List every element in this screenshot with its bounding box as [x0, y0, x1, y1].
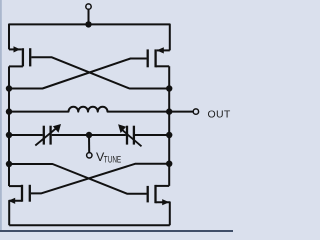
wire: varactor line left — [9, 134, 43, 136]
wire: VSS bottom rail — [9, 224, 170, 226]
junction dot node B / cross-couple — [166, 85, 172, 91]
varactor C1 arrow shaft — [35, 128, 56, 146]
wire: M1 source lead — [9, 48, 22, 50]
transistor M4 gate bar — [147, 186, 149, 203]
terminal OUT — [193, 109, 198, 114]
wire: M2 source lead — [157, 49, 170, 51]
transistor M4 channel bar — [154, 185, 156, 203]
junction dot node A / cross-couple — [6, 85, 12, 91]
wire: node A rail (left) — [8, 66, 10, 186]
wire: M4 source lead — [156, 202, 170, 225]
bottom figure border — [0, 230, 233, 232]
wire: M4 drain lead — [156, 185, 170, 187]
wire: M3 source lead — [9, 201, 22, 225]
wire: cross-couple M1 gate to node B — [31, 57, 169, 88]
wire: varactor line middle — [52, 134, 126, 136]
wire: VDD top rail — [9, 24, 170, 50]
wire: M2 drain lead — [156, 65, 170, 67]
arrow varactor C2 head — [118, 124, 126, 133]
svg-text:OUT: OUT — [208, 108, 231, 120]
wire: M1 drain lead — [9, 65, 23, 67]
junction dot VDD stub — [85, 21, 91, 27]
transistor M2 gate bar — [147, 49, 149, 67]
arrow M1 source (PMOS, points right into device) — [14, 46, 21, 52]
wire: cross-couple M2 gate to node A — [9, 59, 147, 89]
junction dot node B / bottom cross-couple — [166, 161, 172, 167]
wire: supply stub — [88, 9, 90, 24]
junction dot node A / inductor — [6, 108, 12, 114]
arrow varactor C1 head — [53, 124, 61, 133]
varactor C2 plates — [126, 126, 128, 145]
transistor M2 channel bar — [154, 49, 156, 67]
transistor M3 channel bar — [21, 185, 23, 202]
left figure border — [0, 0, 2, 232]
junction dot VTUNE — [86, 132, 92, 138]
terminal VDD — [86, 4, 91, 9]
varactor C1 plates — [43, 126, 45, 145]
junction dot node A / varactor — [6, 132, 12, 138]
wire: OUT lead — [169, 111, 193, 113]
junction dot node B / inductor-OUT — [166, 108, 172, 114]
transistor M1 channel bar — [22, 48, 24, 66]
transistor M1 gate bar — [29, 48, 31, 66]
arrow M3 source (NMOS, points left away from device) — [8, 198, 15, 204]
junction dot node A / bottom cross-couple — [6, 161, 12, 167]
wire: VTUNE stub — [88, 135, 90, 153]
arrow M4 source (NMOS, points right away from device) — [162, 199, 169, 205]
inductor L1 — [9, 107, 169, 112]
wire: M3 drain lead — [9, 185, 22, 187]
wire: cross-couple node B to M3 gate — [31, 164, 169, 194]
transistor M3 gate bar — [29, 185, 31, 202]
junction dot node B / varactor — [166, 132, 172, 138]
wire: varactor line right — [135, 134, 169, 136]
arrow M2 source (PMOS, points left into device) — [157, 47, 164, 53]
svg-text:TUNE: TUNE — [104, 155, 121, 165]
wire: node B rail (right) — [168, 66, 170, 186]
varactor C2 arrow shaft — [123, 130, 142, 146]
wire: cross-couple node A to M4 gate — [9, 164, 147, 194]
terminal VTUNE — [87, 153, 92, 158]
